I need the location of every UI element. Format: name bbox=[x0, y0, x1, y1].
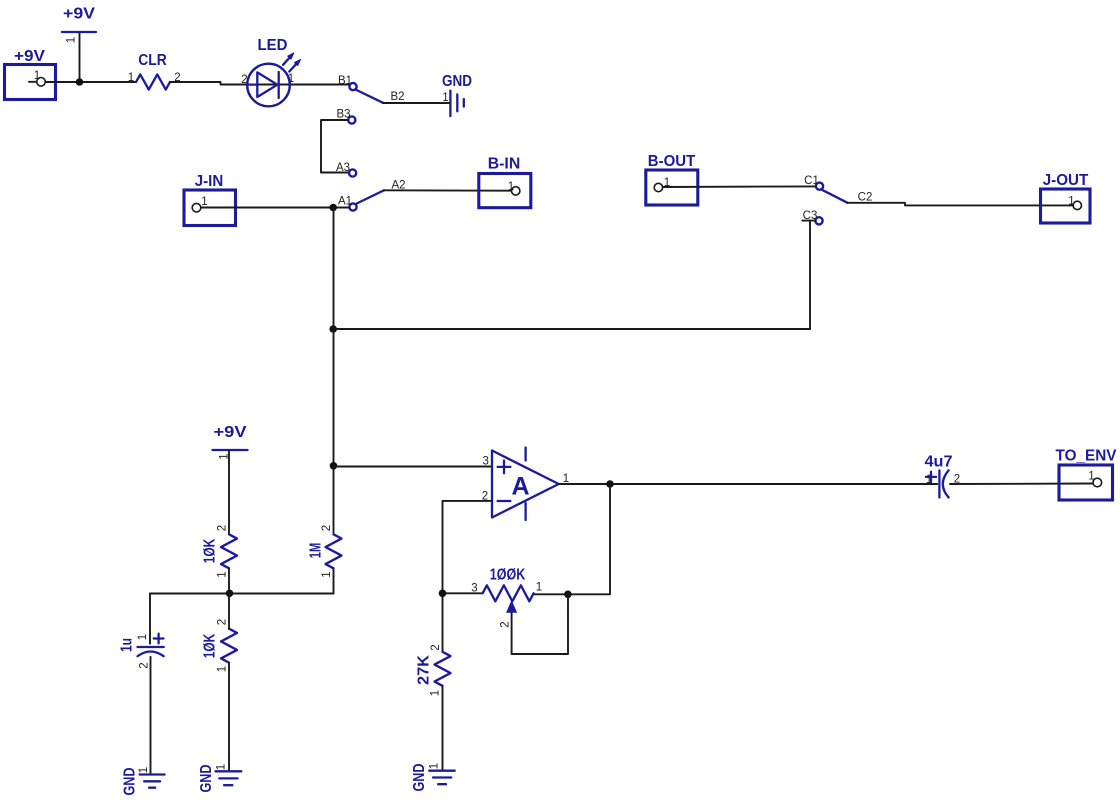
svg-text:B2: B2 bbox=[390, 91, 404, 103]
svg-text:A2: A2 bbox=[391, 180, 405, 192]
svg-text:2: 2 bbox=[217, 619, 229, 625]
svg-text:3: 3 bbox=[482, 456, 488, 468]
svg-text:27K: 27K bbox=[416, 655, 433, 685]
power symbol +9V (top) bbox=[62, 6, 96, 33]
junction on input column bbox=[329, 325, 337, 333]
wire op-amp output bbox=[559, 483, 938, 485]
svg-text:1: 1 bbox=[216, 764, 228, 770]
svg-text:1: 1 bbox=[138, 767, 150, 773]
svg-text:1u: 1u bbox=[119, 638, 136, 652]
svg-text:1M: 1M bbox=[308, 543, 325, 559]
switch contact C3 bbox=[815, 217, 822, 224]
svg-text:1: 1 bbox=[1088, 471, 1094, 483]
svg-text:2: 2 bbox=[241, 74, 247, 86]
wire 10K lower to ground bbox=[228, 663, 230, 772]
svg-text:1: 1 bbox=[66, 37, 78, 43]
switch blade A1-A2 bbox=[356, 190, 384, 204]
svg-text:+9V: +9V bbox=[63, 6, 95, 23]
svg-text:GND: GND bbox=[442, 73, 472, 90]
wire through LED to contact B1 bbox=[247, 84, 349, 86]
svg-text:J-OUT: J-OUT bbox=[1043, 172, 1089, 189]
svg-text:2: 2 bbox=[139, 662, 151, 668]
wire blade to B-IN (net A2) bbox=[384, 189, 511, 191]
connector J-IN bbox=[184, 173, 236, 226]
svg-text:B-OUT: B-OUT bbox=[648, 153, 696, 170]
svg-text:GND: GND bbox=[122, 768, 139, 796]
svg-text:TO_ENV: TO_ENV bbox=[1056, 448, 1117, 465]
svg-text:2: 2 bbox=[482, 491, 488, 503]
wire 27K to ground bbox=[442, 686, 444, 771]
power symbol +9V (bias) bbox=[213, 424, 248, 450]
SECTION: bias network bbox=[119, 424, 342, 796]
svg-text:2: 2 bbox=[500, 621, 512, 627]
wire B-OUT to contact C1 bbox=[663, 185, 816, 188]
svg-text:1: 1 bbox=[1068, 196, 1074, 208]
svg-text:A1: A1 bbox=[338, 196, 352, 208]
wire from +9V power to junction bbox=[79, 33, 81, 82]
wire +9V to 10K upper bbox=[228, 451, 230, 534]
svg-text:+9V: +9V bbox=[214, 424, 247, 441]
svg-text:1: 1 bbox=[34, 70, 40, 82]
LED bbox=[247, 37, 300, 106]
switch contact B1 bbox=[349, 83, 356, 90]
capacitor 4u7 (polarized) bbox=[925, 454, 953, 498]
bias mid rail wire bbox=[150, 593, 334, 595]
svg-text:3: 3 bbox=[471, 583, 477, 595]
connector TO_ENV bbox=[1056, 448, 1117, 501]
switch contact A1 bbox=[349, 203, 356, 210]
svg-text:1: 1 bbox=[137, 634, 149, 640]
capacitor 1u (polarized) bbox=[119, 634, 164, 657]
wire op-amp pin 2 to feedback column bbox=[443, 501, 493, 652]
wire B3 to A3 bbox=[321, 120, 348, 173]
svg-text:1: 1 bbox=[508, 181, 514, 193]
SECTION: output bbox=[925, 448, 1117, 501]
svg-text:2: 2 bbox=[430, 644, 442, 650]
svg-text:2: 2 bbox=[217, 525, 229, 531]
connector B-IN bbox=[479, 156, 531, 208]
op-amp U A bbox=[492, 448, 559, 521]
svg-text:2: 2 bbox=[321, 525, 333, 531]
svg-text:1: 1 bbox=[217, 571, 229, 577]
ground GND (rotated, right of B2) bbox=[442, 73, 472, 116]
wire input column (A1 node down to op-amp node) bbox=[333, 208, 335, 535]
resistor 10K (upper) bbox=[202, 534, 238, 568]
wire blade to GND (net B2) bbox=[383, 102, 450, 104]
switch contact B3 bbox=[348, 116, 355, 123]
wire C3 down bbox=[809, 221, 811, 329]
svg-text:A3: A3 bbox=[336, 162, 350, 174]
svg-text:CLR: CLR bbox=[138, 52, 167, 69]
junction at +9V rail bbox=[76, 78, 84, 86]
svg-text:1ØK: 1ØK bbox=[202, 538, 219, 563]
switch contact C1 bbox=[816, 183, 823, 190]
ground GND (below 1u) bbox=[122, 768, 165, 796]
junction bias mid bbox=[226, 590, 234, 598]
SECTION: opamp area bbox=[330, 448, 938, 792]
ground GND (below 10K lower) bbox=[198, 765, 241, 793]
svg-text:C1: C1 bbox=[804, 175, 819, 187]
wire J-IN to contact A1 bbox=[201, 207, 349, 209]
wire blade to J-OUT (net C2) bbox=[848, 203, 1074, 206]
wire wiper loop bbox=[512, 594, 568, 654]
switch blade B1-B2 bbox=[356, 90, 383, 103]
svg-text:1: 1 bbox=[217, 666, 229, 672]
svg-text:GND: GND bbox=[411, 764, 428, 792]
svg-text:B1: B1 bbox=[338, 75, 352, 87]
connector J-OUT bbox=[1041, 172, 1091, 223]
svg-text:1: 1 bbox=[429, 763, 441, 769]
svg-text:1ØØK: 1ØØK bbox=[490, 567, 526, 584]
wire 4u7 to TO_ENV bbox=[950, 483, 1093, 486]
junction at A1 node bbox=[329, 204, 337, 212]
wire to op-amp pin 3 bbox=[334, 466, 493, 468]
junction at pot right bbox=[564, 591, 572, 599]
svg-text:1ØK: 1ØK bbox=[202, 633, 219, 658]
resistor CLR bbox=[136, 52, 170, 90]
svg-text:B3: B3 bbox=[336, 109, 350, 121]
wire output down to pot bbox=[534, 484, 610, 594]
potentiometer 100K bbox=[483, 567, 534, 613]
junction at op-amp input node bbox=[330, 462, 338, 470]
ground GND (below 27K) bbox=[411, 764, 455, 792]
wire +9V box to resistor CLR bbox=[45, 81, 136, 83]
svg-text:+9V: +9V bbox=[14, 48, 45, 65]
svg-text:1: 1 bbox=[430, 690, 442, 696]
switch contact A3 bbox=[349, 169, 356, 176]
wire C3 net across bbox=[334, 328, 811, 330]
stub at C3 bbox=[802, 220, 815, 222]
SECTION: switch C bbox=[329, 153, 1090, 534]
svg-text:1: 1 bbox=[201, 196, 207, 208]
SECTION: top rail bbox=[5, 6, 350, 107]
svg-text:A: A bbox=[511, 473, 529, 501]
resistor 10K (lower) bbox=[202, 629, 238, 663]
junction at output bbox=[606, 480, 614, 488]
wire pot pin 3 to feedback column bbox=[443, 592, 483, 594]
svg-text:4u7: 4u7 bbox=[925, 454, 953, 471]
svg-text:1: 1 bbox=[926, 474, 932, 486]
connector +9V bbox=[5, 48, 56, 100]
wire CLR to LED bbox=[170, 82, 247, 85]
svg-text:LED: LED bbox=[258, 37, 288, 54]
wire mid rail to 1u bbox=[149, 594, 151, 644]
svg-text:1: 1 bbox=[321, 571, 333, 577]
switch blade C1-C2 bbox=[822, 190, 848, 203]
svg-text:J-IN: J-IN bbox=[195, 173, 224, 190]
resistor 1M bbox=[308, 534, 342, 568]
svg-text:1: 1 bbox=[536, 582, 542, 594]
wire 1u to ground bbox=[150, 657, 152, 775]
wire 10K upper to mid node bbox=[228, 568, 230, 593]
junction at 27K top bbox=[439, 590, 447, 598]
wire 1M to mid rail bbox=[333, 568, 335, 593]
svg-text:C2: C2 bbox=[858, 192, 873, 204]
svg-text:GND: GND bbox=[198, 765, 215, 793]
svg-text:1: 1 bbox=[288, 73, 294, 85]
svg-text:1: 1 bbox=[442, 92, 448, 104]
resistor 27K bbox=[416, 652, 451, 686]
connector B-OUT bbox=[646, 153, 698, 205]
SECTION: switch AB bbox=[184, 73, 531, 226]
wire 10K lower to mid node (top stub) bbox=[228, 594, 230, 629]
svg-text:B-IN: B-IN bbox=[488, 156, 521, 173]
svg-text:1: 1 bbox=[128, 72, 134, 84]
